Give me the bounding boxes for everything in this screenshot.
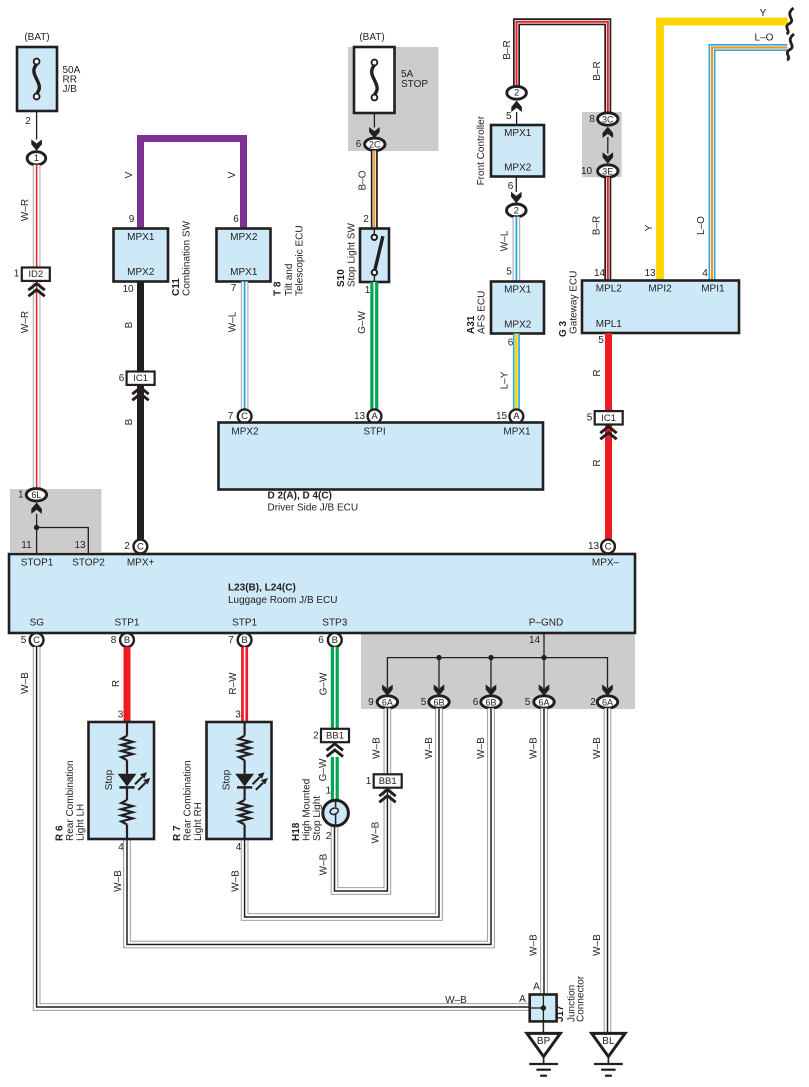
svg-text:6: 6 <box>508 181 514 192</box>
wire P-GND pin14 down <box>543 633 545 688</box>
svg-text:6: 6 <box>119 373 125 384</box>
high mounted stop light H18 bulb <box>323 800 349 826</box>
svg-text:6A: 6A <box>538 697 549 707</box>
svg-text:6: 6 <box>508 338 514 349</box>
svg-text:2: 2 <box>25 116 31 127</box>
svg-text:5: 5 <box>421 697 427 708</box>
svg-text:MPX1: MPX1 <box>230 267 258 278</box>
svg-text:2: 2 <box>326 831 332 842</box>
svg-text:B–R: B–R <box>592 216 603 235</box>
gray panel behind 5A STOP fuse <box>348 47 439 151</box>
svg-text:5: 5 <box>21 635 27 646</box>
fuse 50A RR J/B F1 <box>17 47 57 111</box>
connector oval 2 upper <box>507 86 527 99</box>
junction dot at 6L branch <box>34 525 39 530</box>
ground BP <box>527 1033 560 1075</box>
svg-text:6B: 6B <box>485 697 496 707</box>
svg-text:13: 13 <box>588 541 600 552</box>
svg-text:V: V <box>227 171 238 178</box>
svg-text:R: R <box>111 680 122 687</box>
wire R-W STP1 to R7 <box>241 647 248 722</box>
svg-text:7: 7 <box>228 411 234 422</box>
svg-text:Y: Y <box>760 8 767 19</box>
wire L-Y from AFS to MPX1 <box>513 334 520 410</box>
svg-text:2C: 2C <box>369 140 381 150</box>
wire W-B 6A9 via BB1 to H18 <box>335 708 388 891</box>
svg-text:Stop Light: Stop Light <box>312 796 323 841</box>
resistor lower R7 <box>239 800 251 825</box>
connector ID2 <box>22 268 50 281</box>
arrow up into oval 2 <box>511 101 522 112</box>
svg-text:Light RH: Light RH <box>193 802 204 841</box>
svg-text:A: A <box>519 994 526 1005</box>
svg-text:W–B: W–B <box>529 934 540 956</box>
svg-text:Telescopic ECU: Telescopic ECU <box>295 225 306 296</box>
connector oval 6A 5 <box>534 696 554 708</box>
svg-text:STP3: STP3 <box>322 618 347 629</box>
stop LED R7 <box>235 772 268 790</box>
svg-text:3E: 3E <box>602 166 613 176</box>
wire L-O gateway MPI1 to right edge <box>712 48 787 281</box>
svg-text:2: 2 <box>313 731 319 742</box>
svg-text:8: 8 <box>589 114 595 125</box>
chevron below BB1 lower <box>379 790 395 803</box>
svg-text:C11: C11 <box>171 278 182 296</box>
svg-text:Rear Combination: Rear Combination <box>183 760 194 841</box>
svg-text:3: 3 <box>118 710 124 721</box>
svg-text:6A: 6A <box>602 697 613 707</box>
svg-text:MPX2: MPX2 <box>231 427 259 438</box>
connector oval 3C <box>598 113 618 125</box>
svg-text:1: 1 <box>34 153 39 164</box>
wire G-W from S10 to STPI <box>370 282 378 410</box>
connector IC1 on wire R <box>595 411 623 424</box>
combination switch C11 <box>114 229 169 282</box>
svg-text:W–B: W–B <box>476 737 487 759</box>
svg-text:H18: H18 <box>291 822 302 841</box>
stop LED R6 <box>118 772 151 790</box>
svg-text:IC1: IC1 <box>601 413 616 424</box>
connector oval 2C <box>365 138 385 150</box>
svg-text:P–GND: P–GND <box>529 618 563 629</box>
svg-text:S10: S10 <box>336 269 347 287</box>
svg-text:STP1: STP1 <box>232 618 257 629</box>
svg-text:3: 3 <box>235 710 241 721</box>
svg-text:BB1: BB1 <box>326 731 344 742</box>
svg-text:C: C <box>241 411 248 422</box>
connector oval 3E <box>598 165 618 177</box>
svg-text:J17: J17 <box>555 1005 566 1022</box>
connector BB1 lower <box>374 774 402 787</box>
svg-text:R: R <box>592 459 603 466</box>
svg-text:L23(B), L24(C): L23(B), L24(C) <box>228 583 296 594</box>
svg-text:B: B <box>332 635 338 646</box>
svg-text:6: 6 <box>233 214 239 225</box>
connector oval 6A 9 <box>377 696 397 708</box>
svg-text:2: 2 <box>514 88 519 99</box>
AFS ECU A31 <box>491 282 544 334</box>
svg-text:5: 5 <box>506 267 512 278</box>
svg-text:1: 1 <box>365 285 371 296</box>
gray panel behind P-GND distribution <box>361 634 635 709</box>
rear combination light RH R7 <box>207 722 272 839</box>
svg-text:(BAT): (BAT) <box>359 32 384 43</box>
svg-text:5: 5 <box>587 413 593 424</box>
stop light switch S10 <box>360 229 389 283</box>
svg-text:9: 9 <box>368 697 374 708</box>
svg-text:STOP1: STOP1 <box>21 557 54 568</box>
rear combination light LH R6 <box>89 722 155 839</box>
wire B-R front controller to 3C <box>517 22 608 113</box>
svg-text:MPX1: MPX1 <box>127 232 155 243</box>
svg-text:BP: BP <box>537 1036 551 1047</box>
svg-text:5: 5 <box>506 111 512 122</box>
chevron below IC1 <box>132 388 148 401</box>
svg-text:MPX1: MPX1 <box>504 128 532 139</box>
svg-text:2: 2 <box>590 697 596 708</box>
svg-text:2: 2 <box>363 214 369 225</box>
svg-text:Tilt and: Tilt and <box>284 264 295 296</box>
svg-text:A: A <box>513 411 520 422</box>
svg-text:W–B: W–B <box>20 672 31 694</box>
svg-text:AFS ECU: AFS ECU <box>477 291 488 334</box>
ground bus with end branches <box>387 658 607 688</box>
pin circle B 8 STP1 LH <box>120 633 134 647</box>
junction dots on ground bus <box>436 655 441 660</box>
svg-text:5: 5 <box>598 335 604 346</box>
svg-text:Stop: Stop <box>222 769 233 790</box>
svg-text:W–B: W–B <box>372 737 383 759</box>
svg-text:B: B <box>124 635 130 646</box>
svg-text:B: B <box>124 321 135 328</box>
svg-text:MPL2: MPL2 <box>596 283 623 294</box>
svg-text:Rear Combination: Rear Combination <box>65 760 76 841</box>
arrow into connector 1 <box>31 139 42 150</box>
connector oval 6B 5 <box>429 696 449 708</box>
wire fuse F2 to connector 2C <box>373 113 375 128</box>
svg-text:Gateway ECU: Gateway ECU <box>569 271 580 334</box>
svg-text:High Mounted: High Mounted <box>302 779 313 841</box>
svg-text:C: C <box>137 541 144 552</box>
svg-text:B: B <box>124 418 135 425</box>
wire R STP1 to R6 <box>124 647 131 722</box>
svg-text:L–Y: L–Y <box>500 371 511 389</box>
svg-text:14: 14 <box>594 268 606 279</box>
break symbol on wire L-O <box>787 34 794 60</box>
wire W-L front controller to AFS <box>513 217 521 282</box>
svg-text:MPX–: MPX– <box>592 557 620 568</box>
svg-text:A: A <box>533 982 540 993</box>
wire B-O to S10 <box>371 151 378 229</box>
svg-text:(BAT): (BAT) <box>24 32 49 43</box>
svg-text:MPL1: MPL1 <box>596 319 623 330</box>
svg-text:C: C <box>33 635 40 646</box>
junction connector J17 <box>530 995 557 1022</box>
svg-text:W–B: W–B <box>592 934 603 956</box>
gray panel behind connector 6L <box>10 489 102 552</box>
svg-text:BB1: BB1 <box>379 776 397 787</box>
svg-text:A: A <box>371 411 378 422</box>
svg-text:13: 13 <box>644 268 656 279</box>
svg-text:6A: 6A <box>382 697 393 707</box>
svg-text:G 3: G 3 <box>558 320 569 337</box>
wire W-L from T8 to MPX2 <box>241 282 249 410</box>
svg-text:3C: 3C <box>602 114 614 124</box>
tilt and telescopic ECU T8 <box>217 229 271 282</box>
luggage room J/B ECU box <box>9 554 635 633</box>
svg-text:R 7: R 7 <box>172 825 183 841</box>
svg-text:MPX2: MPX2 <box>504 163 532 174</box>
svg-text:Stop Light SW: Stop Light SW <box>347 223 358 287</box>
wire W-B 6A5 to J17 <box>540 708 548 994</box>
svg-text:MPX1: MPX1 <box>504 285 532 296</box>
svg-text:W–B: W–B <box>445 995 467 1006</box>
arrow up into 6L <box>31 503 42 514</box>
wire W-B 6A2 to ground BL <box>604 708 612 1033</box>
svg-text:Connector: Connector <box>575 975 586 1022</box>
fuse 5A STOP F2 <box>354 47 395 113</box>
ground BL <box>592 1033 625 1075</box>
pin circle C 13 MPX- <box>601 540 615 554</box>
svg-text:Driver Side J/B ECU: Driver Side J/B ECU <box>268 503 359 514</box>
svg-text:W–B: W–B <box>371 821 382 843</box>
svg-text:R 6: R 6 <box>55 825 66 841</box>
resistor upper R6 <box>121 736 133 761</box>
wire V loop C11 to T8 <box>141 139 244 229</box>
svg-text:W–R: W–R <box>20 199 31 221</box>
svg-text:6L: 6L <box>31 490 41 500</box>
connector oval 6B 6 <box>481 696 501 708</box>
svg-text:W–R: W–R <box>20 311 31 333</box>
svg-text:L–O: L–O <box>755 33 774 44</box>
svg-text:10: 10 <box>122 284 134 295</box>
svg-text:Stop: Stop <box>104 769 115 790</box>
svg-text:5: 5 <box>525 697 531 708</box>
wire branch to STOP2 <box>37 528 89 554</box>
wire W-B 6B6 to R6 <box>127 708 491 944</box>
connector oval 6A 2 <box>597 696 617 708</box>
chevron below ID2 <box>28 284 44 297</box>
svg-text:MPX1: MPX1 <box>503 427 531 438</box>
svg-text:14: 14 <box>529 635 541 646</box>
svg-text:STOP: STOP <box>401 79 428 90</box>
svg-text:G–W: G–W <box>319 672 330 695</box>
wire W-B 6B5 to R7 <box>245 708 439 917</box>
svg-text:STOP2: STOP2 <box>72 557 105 568</box>
svg-text:1: 1 <box>366 776 372 787</box>
svg-text:6: 6 <box>356 139 362 150</box>
stub pin 5 front controller <box>516 112 518 125</box>
svg-text:Light LH: Light LH <box>76 804 87 841</box>
svg-text:MPX2: MPX2 <box>504 320 532 331</box>
svg-text:V: V <box>124 171 135 178</box>
arrow down into oval 2 lower <box>511 192 522 203</box>
svg-text:6: 6 <box>473 697 479 708</box>
svg-text:BL: BL <box>602 1036 615 1047</box>
pin circle B 6 STP3 <box>328 633 342 647</box>
wire J17 to ground BP <box>542 1021 544 1033</box>
svg-text:W–B: W–B <box>529 737 540 759</box>
svg-text:G–W: G–W <box>318 758 329 781</box>
wire G-W STP3 to BB1 <box>331 647 339 729</box>
svg-text:W–L: W–L <box>228 311 239 332</box>
gateway ECU G3 <box>582 281 739 334</box>
svg-text:MPX2: MPX2 <box>127 267 155 278</box>
connector oval 1 <box>27 152 46 165</box>
gray panel behind connectors 3C/3E <box>582 112 622 177</box>
resistor lower R6 <box>121 800 133 825</box>
wire W-R from connector 1 to 6L <box>33 165 41 489</box>
arrows into ground connectors <box>382 685 393 696</box>
arrow into connector 2C <box>369 127 380 138</box>
svg-text:W–L: W–L <box>500 230 511 251</box>
svg-text:B–R: B–R <box>502 40 513 59</box>
resistor upper R7 <box>239 736 251 761</box>
pin circle C 2 MPX+ <box>134 540 148 554</box>
svg-text:D 2(A), D 4(C): D 2(A), D 4(C) <box>268 491 332 502</box>
svg-text:STPI: STPI <box>363 427 385 438</box>
svg-text:W–B: W–B <box>319 853 330 875</box>
svg-text:MPI2: MPI2 <box>648 283 672 294</box>
svg-text:2: 2 <box>514 205 519 216</box>
svg-text:MPX2: MPX2 <box>230 232 258 243</box>
wire B-R 3E to gateway MPL2 <box>604 177 611 280</box>
connector oval 2 lower <box>507 204 527 217</box>
wire B from C11 to MPX+ <box>137 282 144 541</box>
svg-text:13: 13 <box>74 540 86 551</box>
svg-text:T 8: T 8 <box>273 281 284 296</box>
svg-text:Front Controller: Front Controller <box>476 115 487 185</box>
svg-text:9: 9 <box>129 214 135 225</box>
svg-text:B: B <box>241 635 247 646</box>
svg-text:13: 13 <box>354 411 366 422</box>
driver side J/B ECU box <box>219 423 544 490</box>
front controller box <box>491 125 544 177</box>
pin circle C 5 SG <box>30 633 44 647</box>
chevron below IC1 right <box>600 427 616 440</box>
pin circle A 15 on driver side JB <box>510 409 524 423</box>
svg-text:W–B: W–B <box>424 737 435 759</box>
svg-text:W–B: W–B <box>592 737 603 759</box>
wire junction to STOP1 <box>36 514 38 554</box>
svg-text:L–O: L–O <box>696 216 707 235</box>
svg-text:Combination SW: Combination SW <box>182 220 193 296</box>
connector oval 6L <box>26 489 46 501</box>
svg-text:MPX+: MPX+ <box>127 557 155 568</box>
wire fuse F1 to connector 1 <box>36 111 38 140</box>
svg-text:C: C <box>605 541 612 552</box>
svg-text:4: 4 <box>702 268 708 279</box>
chevron below BB1 upper <box>327 744 343 757</box>
svg-text:IC1: IC1 <box>133 373 148 384</box>
svg-text:Y: Y <box>644 224 655 231</box>
svg-text:1: 1 <box>18 490 24 501</box>
svg-text:4: 4 <box>118 842 124 853</box>
svg-text:2: 2 <box>124 541 130 552</box>
svg-text:7: 7 <box>228 635 234 646</box>
pin circle A 13 on driver side JB <box>368 409 382 423</box>
svg-text:ID2: ID2 <box>28 269 43 280</box>
svg-text:Luggage Room J/B ECU: Luggage Room J/B ECU <box>228 595 338 606</box>
double arrow between 3C and 3E <box>603 127 614 138</box>
svg-text:G–W: G–W <box>357 311 368 334</box>
svg-text:W–B: W–B <box>113 870 124 892</box>
pin circle C 7 on driver side JB <box>238 409 252 423</box>
svg-text:R–W: R–W <box>228 672 239 695</box>
wire Y gateway MPI2 to right edge <box>660 22 788 281</box>
svg-text:6B: 6B <box>433 697 444 707</box>
svg-text:R: R <box>592 369 603 376</box>
svg-text:6: 6 <box>318 635 324 646</box>
break symbol on wire Y <box>787 8 794 34</box>
svg-text:A31: A31 <box>466 315 477 334</box>
wire G-W BB1 to bulb <box>331 757 339 800</box>
svg-text:STP1: STP1 <box>114 618 139 629</box>
connector IC1 on wire B <box>127 372 155 385</box>
svg-text:15: 15 <box>496 411 508 422</box>
svg-text:B–O: B–O <box>358 170 369 190</box>
pin circle B 7 STP1 RH <box>238 633 252 647</box>
svg-text:1: 1 <box>14 269 20 280</box>
svg-text:11: 11 <box>21 540 32 551</box>
wire W-B SG to J17 <box>37 647 530 1007</box>
svg-text:7: 7 <box>231 283 237 294</box>
svg-text:J/B: J/B <box>63 84 78 95</box>
connector BB1 upper <box>321 729 349 742</box>
svg-text:4: 4 <box>236 842 242 853</box>
svg-text:10: 10 <box>581 166 593 177</box>
svg-text:W–B: W–B <box>231 870 242 892</box>
svg-text:SG: SG <box>30 618 45 629</box>
svg-text:1: 1 <box>326 786 332 797</box>
svg-text:8: 8 <box>111 635 117 646</box>
svg-text:B–R: B–R <box>592 61 603 80</box>
svg-text:MPI1: MPI1 <box>701 283 725 294</box>
